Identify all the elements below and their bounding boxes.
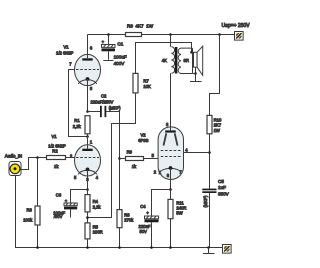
tube V2 6P3S bbox=[138, 122, 188, 180]
capacitor C5 bbox=[202, 179, 229, 247]
svg-text:4: 4 bbox=[96, 175, 99, 180]
svg-text:V2: V2 bbox=[141, 133, 147, 138]
node rail R5 bbox=[86, 246, 89, 249]
wire R7 bottom to feedback node bbox=[88, 93, 136, 218]
wire R7 top link bbox=[136, 43, 171, 74]
transformer core bbox=[175, 47, 178, 74]
svg-text:50V: 50V bbox=[140, 229, 148, 234]
svg-text:R4: R4 bbox=[93, 199, 99, 204]
node V1b cathode junction bbox=[86, 188, 89, 191]
node C1 top junction bbox=[107, 33, 110, 36]
speaker LS1 bbox=[192, 46, 203, 75]
svg-text:+: + bbox=[102, 40, 105, 45]
ground speaker bbox=[190, 74, 202, 82]
wire V2 cathode pin8 bbox=[170, 168, 172, 190]
node rail GND bbox=[207, 246, 210, 249]
svg-text:8: 8 bbox=[90, 86, 93, 91]
svg-text:R10: R10 bbox=[214, 117, 222, 122]
svg-text:R8: R8 bbox=[124, 212, 130, 217]
resistor R10 bbox=[207, 115, 222, 133]
wire primary to V2 anode pin3 bbox=[170, 73, 172, 127]
capacitor C1 bbox=[102, 35, 127, 67]
node screen junction bbox=[208, 151, 211, 154]
svg-text:R9: R9 bbox=[127, 150, 133, 155]
resistor R2 bbox=[47, 148, 66, 169]
svg-text:/50V: /50V bbox=[54, 214, 63, 219]
svg-text:Audio_IN: Audio_IN bbox=[5, 154, 22, 159]
capacitor C4 bbox=[139, 190, 171, 248]
svg-text:R1: R1 bbox=[74, 118, 80, 123]
svg-text:5: 5 bbox=[74, 175, 77, 180]
capacitor C2 bbox=[88, 93, 122, 209]
resistor R8 bbox=[117, 210, 134, 248]
resistor R9 bbox=[120, 150, 159, 169]
node R3 branch bbox=[36, 156, 39, 159]
tube V1b 1/2 6N2P bbox=[48, 134, 100, 182]
svg-text:3: 3 bbox=[166, 122, 169, 127]
svg-text:C5: C5 bbox=[218, 179, 224, 184]
svg-text:2,2k: 2,2k bbox=[73, 124, 82, 129]
svg-text:1uF: 1uF bbox=[218, 185, 226, 190]
terminal GND bbox=[223, 245, 232, 254]
svg-text:C4: C4 bbox=[140, 204, 146, 209]
svg-text:4: 4 bbox=[185, 148, 188, 153]
node rail R8 bbox=[118, 246, 121, 249]
node rail C4 bbox=[150, 246, 153, 249]
wire secondary top to speaker bbox=[171, 43, 192, 53]
terminal Uap=+280V bbox=[222, 23, 251, 40]
wire V2 pin4 screen bbox=[183, 152, 209, 154]
svg-text:1W: 1W bbox=[214, 128, 220, 133]
wire bottom ground rail bbox=[16, 176, 223, 248]
node V1a cathode / C2 / R1 bbox=[86, 110, 89, 113]
wire secondary bottom bbox=[193, 73, 196, 75]
svg-text:8R: 8R bbox=[184, 58, 189, 63]
node rail R3 bbox=[36, 246, 39, 249]
svg-text:4K: 4K bbox=[162, 58, 167, 63]
svg-text:R7: R7 bbox=[143, 79, 149, 84]
svg-text:C3: C3 bbox=[56, 192, 62, 197]
svg-text:R2: R2 bbox=[52, 148, 58, 153]
node R1 bottom / V1b anode bbox=[86, 135, 89, 138]
svg-text:6P3S: 6P3S bbox=[138, 138, 148, 143]
svg-text:1/2 6N2P: 1/2 6N2P bbox=[56, 50, 74, 55]
svg-text:R6 4K7 1W: R6 4K7 1W bbox=[127, 24, 154, 29]
node speaker bottom bbox=[194, 72, 197, 75]
svg-text:C2: C2 bbox=[101, 93, 107, 98]
wire V1b cathode pin3 bbox=[87, 169, 89, 189]
wire V1a cathode pin8 down bbox=[87, 86, 89, 112]
svg-text:1k: 1k bbox=[54, 164, 59, 169]
svg-text:(MKP): (MKP) bbox=[109, 105, 121, 110]
svg-text:V1: V1 bbox=[64, 44, 70, 49]
svg-text:400V: 400V bbox=[114, 61, 126, 66]
resistor R11 bbox=[168, 190, 186, 248]
node rail R11 bbox=[169, 246, 172, 249]
transformer TR1 primary 4K bbox=[162, 35, 175, 74]
wire R10 feed from rail bbox=[210, 35, 220, 116]
ground chassis stub bbox=[203, 248, 215, 254]
svg-text:100k: 100k bbox=[23, 217, 33, 222]
svg-text:2: 2 bbox=[154, 170, 157, 175]
svg-text:Uap=+ 280V: Uap=+ 280V bbox=[222, 23, 251, 29]
wire R10 to screen node bbox=[209, 134, 211, 189]
transformer TR1 secondary 8R bbox=[178, 48, 192, 73]
wire top B+ rail bbox=[88, 34, 235, 36]
svg-text:7: 7 bbox=[69, 61, 72, 66]
capacitor C3 bbox=[53, 190, 87, 220]
node V2 cathode junction bbox=[169, 188, 172, 191]
svg-text:2,2k: 2,2k bbox=[93, 205, 102, 210]
wire input to R2 bbox=[20, 158, 47, 170]
svg-text:5: 5 bbox=[152, 153, 155, 158]
svg-text:220nF/250V: 220nF/250V bbox=[91, 99, 114, 104]
ground C1 bbox=[103, 60, 113, 62]
resistor R7 bbox=[133, 73, 151, 93]
svg-text:V1: V1 bbox=[52, 134, 58, 139]
svg-text:(MKP): (MKP) bbox=[203, 195, 208, 207]
node transformer junction bbox=[169, 33, 172, 36]
svg-text:100R: 100R bbox=[93, 230, 103, 235]
svg-text:6: 6 bbox=[90, 45, 93, 50]
node R9/R8 junction bbox=[118, 157, 121, 160]
wire V1a anode riser bbox=[87, 35, 89, 56]
svg-text:C1: C1 bbox=[117, 41, 123, 46]
svg-text:1k: 1k bbox=[132, 164, 137, 169]
node R10 feed junction bbox=[218, 33, 221, 36]
resistor R1 bbox=[73, 116, 90, 134]
resistor R3 bbox=[23, 158, 40, 248]
svg-text:2K7: 2K7 bbox=[214, 123, 222, 128]
svg-text:5W: 5W bbox=[176, 211, 182, 216]
svg-text:1: 1 bbox=[90, 140, 93, 145]
connector Audio_IN bbox=[5, 154, 22, 176]
tube V1a 1/2 6N2P bbox=[56, 44, 101, 91]
svg-text:10K: 10K bbox=[143, 84, 151, 89]
wire R1 to V1b bbox=[87, 134, 89, 145]
wire V1a grid pin7 bbox=[69, 70, 88, 137]
svg-text:R3: R3 bbox=[27, 208, 33, 213]
resistor R4 bbox=[85, 190, 101, 223]
wire R2 to V1b grid pin2 bbox=[66, 157, 75, 159]
resistor R5 bbox=[85, 223, 103, 248]
svg-text:+: + bbox=[146, 210, 149, 215]
node R4/R5 feedback junction bbox=[86, 216, 89, 219]
svg-text:270k: 270k bbox=[124, 218, 134, 223]
svg-text:350V: 350V bbox=[218, 191, 230, 196]
resistor R6 bbox=[126, 24, 154, 37]
svg-text:100uF: 100uF bbox=[114, 55, 127, 60]
node speaker top bbox=[190, 51, 193, 54]
